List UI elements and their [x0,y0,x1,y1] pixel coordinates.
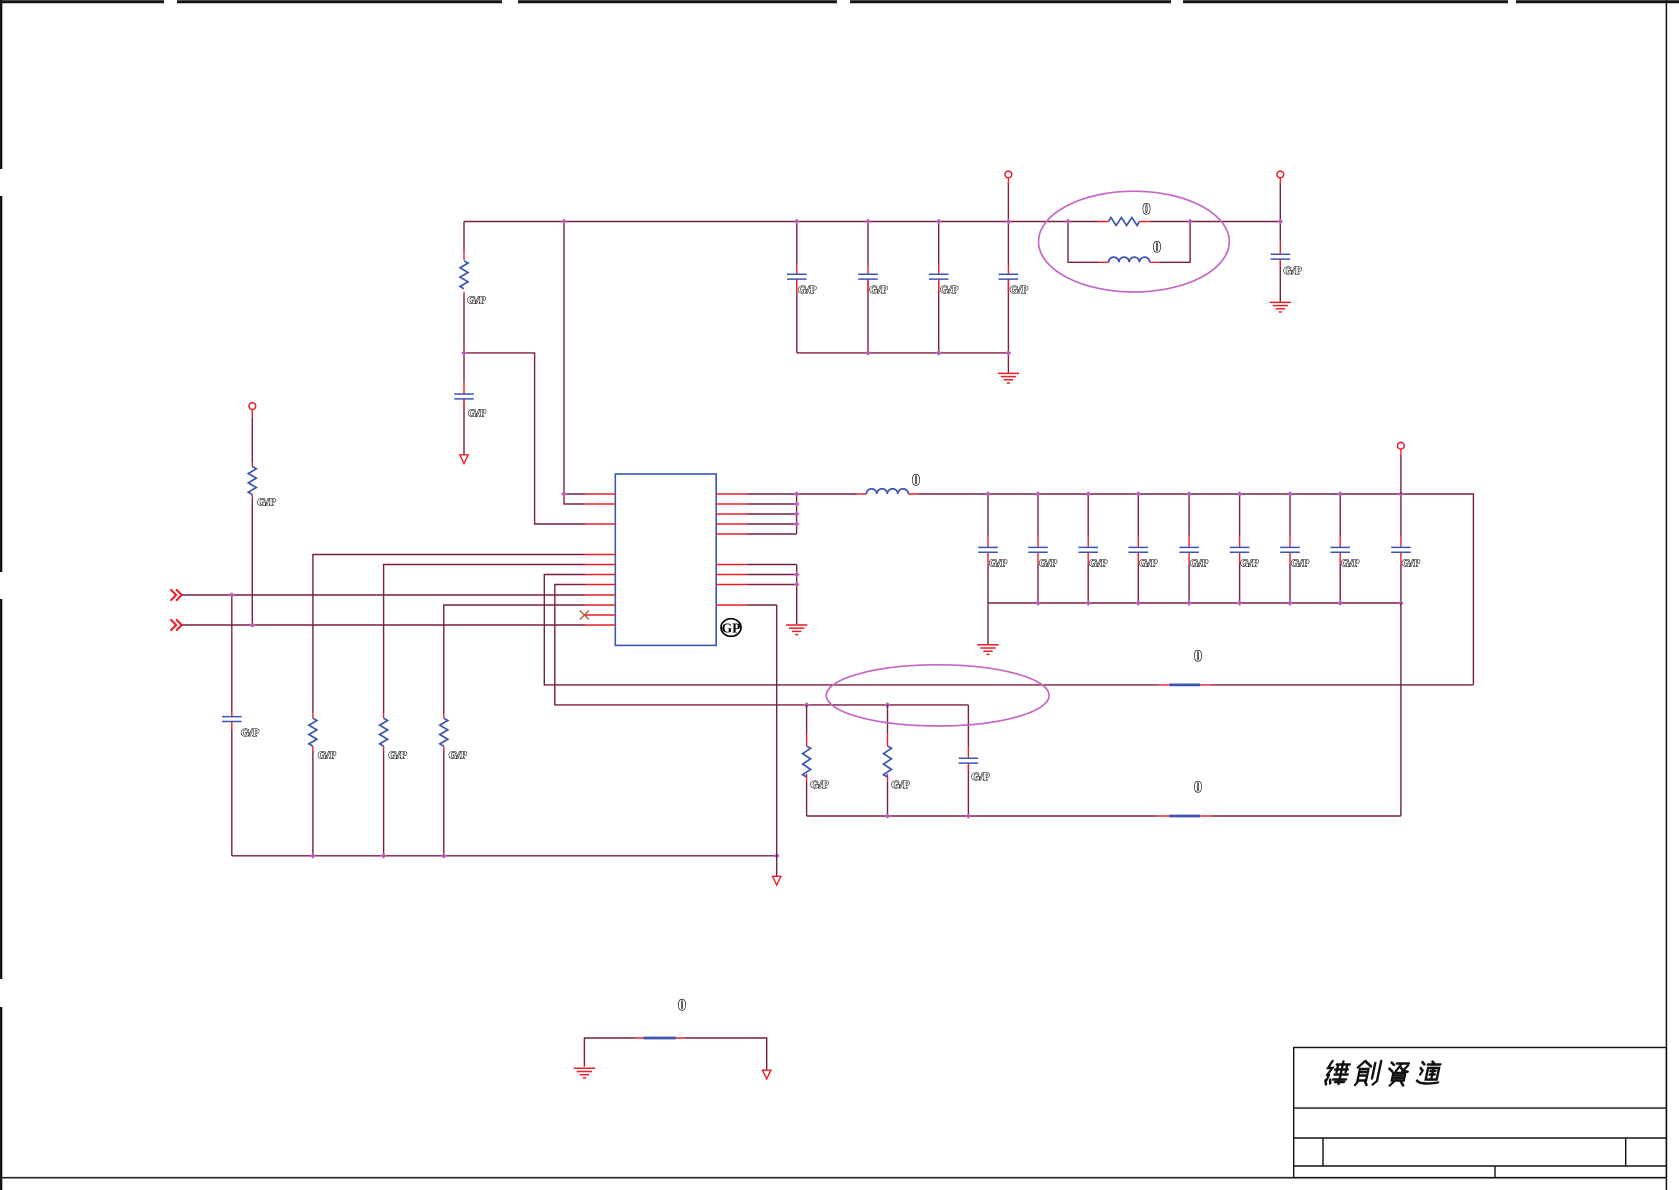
pin stubs of capacitor C16 [1400,537,1402,564]
capacitor C15 [1330,547,1350,552]
junction input net2 to R1 [250,622,256,628]
pin stubs of capacitor C3 [796,266,798,293]
pin stubs of ferrite bead FB1 [1159,684,1210,686]
capacitor C12 [1179,547,1199,552]
pull-up terminal P3 [249,403,256,410]
capacitor C8 [978,547,998,552]
pin stubs of resistor R4 [443,713,445,750]
svg-text:G/P: G/P [869,284,888,296]
resistor R4 [440,718,448,746]
wire input net 1 [182,594,585,596]
ferrite bead FB2 [1169,815,1200,818]
sheet bottom border [0,1177,1666,1179]
wire R2 column [313,555,585,856]
pin stubs of capacitor C11 [1137,537,1139,564]
junction U1 pin1 feed [561,491,567,497]
resistor R7 [803,746,811,777]
capacitor C2 [454,394,474,399]
wire U1 pin1-pin2 left loop [564,494,585,504]
junctions cap bank bottom [1035,600,1404,606]
svg-text:G/P: G/P [1341,557,1360,569]
junctions on sense bus [885,813,972,819]
ferrite bead FB1 [1169,684,1200,687]
svg-text:G/P: G/P [1039,557,1058,569]
svg-text:G/P: G/P [1291,557,1310,569]
svg-text:G/P: G/P [257,496,276,508]
svg-text:G/P: G/P [388,749,407,761]
svg-text:G/P: G/P [1190,557,1209,569]
pin stubs of capacitor C14 [1289,537,1291,564]
capacitor C1 [222,717,242,722]
junctions on bottom bus [310,853,779,859]
wire R7 column [806,705,808,816]
sheet right border [1665,0,1667,1190]
wire column of capacitor C15 [1339,494,1341,603]
ground of FB3 link [574,1068,595,1078]
wire R3 column [384,565,585,856]
svg-text:0: 0 [1143,201,1151,218]
capacitor C7 [1271,254,1291,259]
svg-text:GP: GP [722,620,741,635]
ground of cap bank [977,645,998,655]
ground of C7 [1270,302,1291,312]
resistor R1 [248,467,256,495]
svg-text:G/P: G/P [810,779,829,791]
wire U1 right pins 2-5 tie [747,494,797,534]
wire column of capacitor C8 [987,494,989,603]
op-amp U1 [615,474,716,645]
wire column of capacitor C9 [1037,494,1039,603]
wire U1 middle right pins to ground [747,565,797,625]
resistor R3 [380,718,388,746]
pin stubs of capacitor C9 [1037,537,1039,564]
sheet top border zone segments [0,0,1679,3]
ground of U1 middle pins [786,625,807,635]
ground of C3-C6 bus [998,373,1019,383]
junctions on top bus [561,219,1283,225]
pin stubs of capacitor C17 [967,747,969,771]
inductor L1 [866,489,908,494]
capacitor C6 [999,274,1019,279]
company logotype text [1325,1061,1443,1086]
wire U1 feedback pin down [747,605,777,876]
svg-text:G/P: G/P [1139,557,1158,569]
ferrite bead FB3 [644,1037,676,1040]
svg-text:G/P: G/P [241,727,260,739]
capacitor C16 [1391,547,1411,552]
pin stubs of resistor R7 [806,734,808,782]
highlight ellipse around feedback nets [826,665,1049,726]
junctions cap bank top [985,491,1403,497]
wire top power bus [464,221,1280,223]
junctions on feedback net 2 [804,702,891,708]
pin stubs of inductor L1 [857,493,918,495]
wire R1 column [251,418,253,626]
pin stubs of resistor R8 [887,734,889,782]
resistor R8 [884,746,892,777]
pin stubs of U1 right side [716,494,747,605]
sheet left border zone segments [0,0,2,1190]
capacitor C10 [1078,547,1098,552]
pin stubs of capacitor C12 [1188,537,1190,564]
input connector net 2 [171,619,182,630]
wire bottom ground-side bus [232,855,777,857]
svg-text:G/P: G/P [467,294,486,306]
pin stubs of capacitor C13 [1239,537,1241,564]
junctions on C3-C6 ground bus [865,350,1011,356]
junction at R5/C2 tap [461,350,467,356]
wire column of capacitor C16 [1400,494,1402,603]
junctions of right pin tie [794,491,800,527]
svg-text:G/P: G/P [1010,284,1029,296]
wire column of capacitor C4 [867,222,869,353]
svg-text:0: 0 [1194,779,1202,796]
power terminal P1 [1005,171,1012,178]
wire column of capacitor C14 [1289,494,1291,603]
inductor L2 [1109,257,1150,262]
resistor R2 [309,718,317,746]
wire column of capacitor C13 [1239,494,1241,603]
pin stubs of capacitor C8 [987,537,989,564]
marker GP beside U1 [721,619,741,637]
wire bus feed to U1 pin1 [563,222,565,495]
net arrow below C2 [460,455,468,464]
pin stubs of inductor L2 [1099,261,1160,263]
pin stubs of capacitor C5 [938,266,940,293]
wire VOUT bus (U1 pin1 to cap bank) [747,494,1474,685]
no-connect X on U1 pin [580,611,589,620]
highlight ellipse around R6/L2 [1039,191,1230,292]
pin stubs of U1 left side [585,494,615,625]
wire feedback net 1 (upper) [544,575,1473,685]
svg-text:0: 0 [1194,648,1202,665]
svg-text:G/P: G/P [1089,557,1108,569]
wire column of capacitor C10 [1087,494,1089,603]
pin stubs of ferrite bead FB2 [1159,815,1210,817]
wire R8 column [887,705,889,816]
wire parallel loop of R6/L2 [1068,222,1190,263]
pin stubs of resistor R2 [312,713,314,750]
svg-text:G/P: G/P [1402,557,1421,569]
svg-text:G/P: G/P [971,771,990,783]
svg-text:G/P: G/P [1240,557,1259,569]
svg-text:G/P: G/P [891,779,910,791]
wire cap bank ground bus [988,603,1401,644]
pin stubs of resistor R5 [463,251,465,295]
capacitor C4 [858,274,878,279]
capacitor C5 [929,274,949,279]
svg-text:G/P: G/P [449,749,468,761]
svg-text:G/P: G/P [798,284,817,296]
svg-text:0: 0 [1153,239,1161,256]
svg-text:0: 0 [678,997,686,1014]
wire sense bus (lower) [807,815,1401,817]
wire P1 to top bus [1007,182,1009,221]
wire C1 column [231,595,233,856]
net arrow below FB3 link [763,1070,771,1079]
wire column of capacitor C3 [796,222,798,353]
pin stubs of resistor R1 [251,410,253,499]
pin stubs of resistor R3 [383,713,385,750]
pin stubs of ferrite bead FB3 [635,1037,685,1039]
title block frame [1294,1048,1667,1178]
wire R4 column [444,605,585,856]
pin stubs of capacitor C1 [231,711,233,730]
pin stubs of capacitor C15 [1339,537,1341,564]
resistor R5 [460,261,468,289]
wire column of capacitor C6 [1007,222,1009,353]
wire feedback net 2 (lower) [555,585,969,705]
resistor R6 [1109,218,1140,226]
wire C17 column [967,705,969,816]
pin stub of terminal P1 [1007,178,1009,184]
pin stubs of capacitor C4 [867,266,869,293]
power terminal P4 [1398,442,1405,449]
capacitor C13 [1230,547,1250,552]
svg-text:G/P: G/P [318,749,337,761]
capacitor C9 [1028,547,1048,552]
wire bottom FB3 link [584,1038,766,1070]
wire P2 / C7 column [1279,184,1281,302]
pin stub of terminal P2 and capacitor C7 [1279,178,1281,267]
svg-text:G/P: G/P [940,284,959,296]
pin stubs of capacitor C6 [1007,266,1009,293]
junctions of middle pin tie [794,572,800,588]
pin stubs of inline resistor R6 [1099,221,1150,223]
capacitor C14 [1280,547,1300,552]
svg-text:0: 0 [912,472,920,489]
capacitor C17 [959,758,979,763]
input connector net 1 [171,589,182,600]
svg-text:G/P: G/P [1283,265,1302,277]
wire column of capacitor C5 [938,222,940,353]
power terminal P2 [1277,171,1284,178]
pin stubs of capacitor C10 [1087,537,1089,564]
wire P4 down to sense bus [1400,456,1402,817]
svg-text:G/P: G/P [468,407,487,419]
junction input net1 to C1 [229,592,235,598]
wire R5/C2 column [464,222,585,525]
net arrow below feedback [773,876,781,885]
capacitor C11 [1129,547,1149,552]
capacitor C3 [787,274,807,279]
wire ground bus of C3-C6 [797,353,1009,373]
pin stub of terminal P4 [1400,449,1402,456]
pin stubs of capacitor C2 [463,382,465,408]
wire column of capacitor C11 [1137,494,1139,603]
wire input net 2 [182,624,585,626]
wire column of capacitor C12 [1188,494,1190,603]
svg-text:G/P: G/P [989,557,1008,569]
